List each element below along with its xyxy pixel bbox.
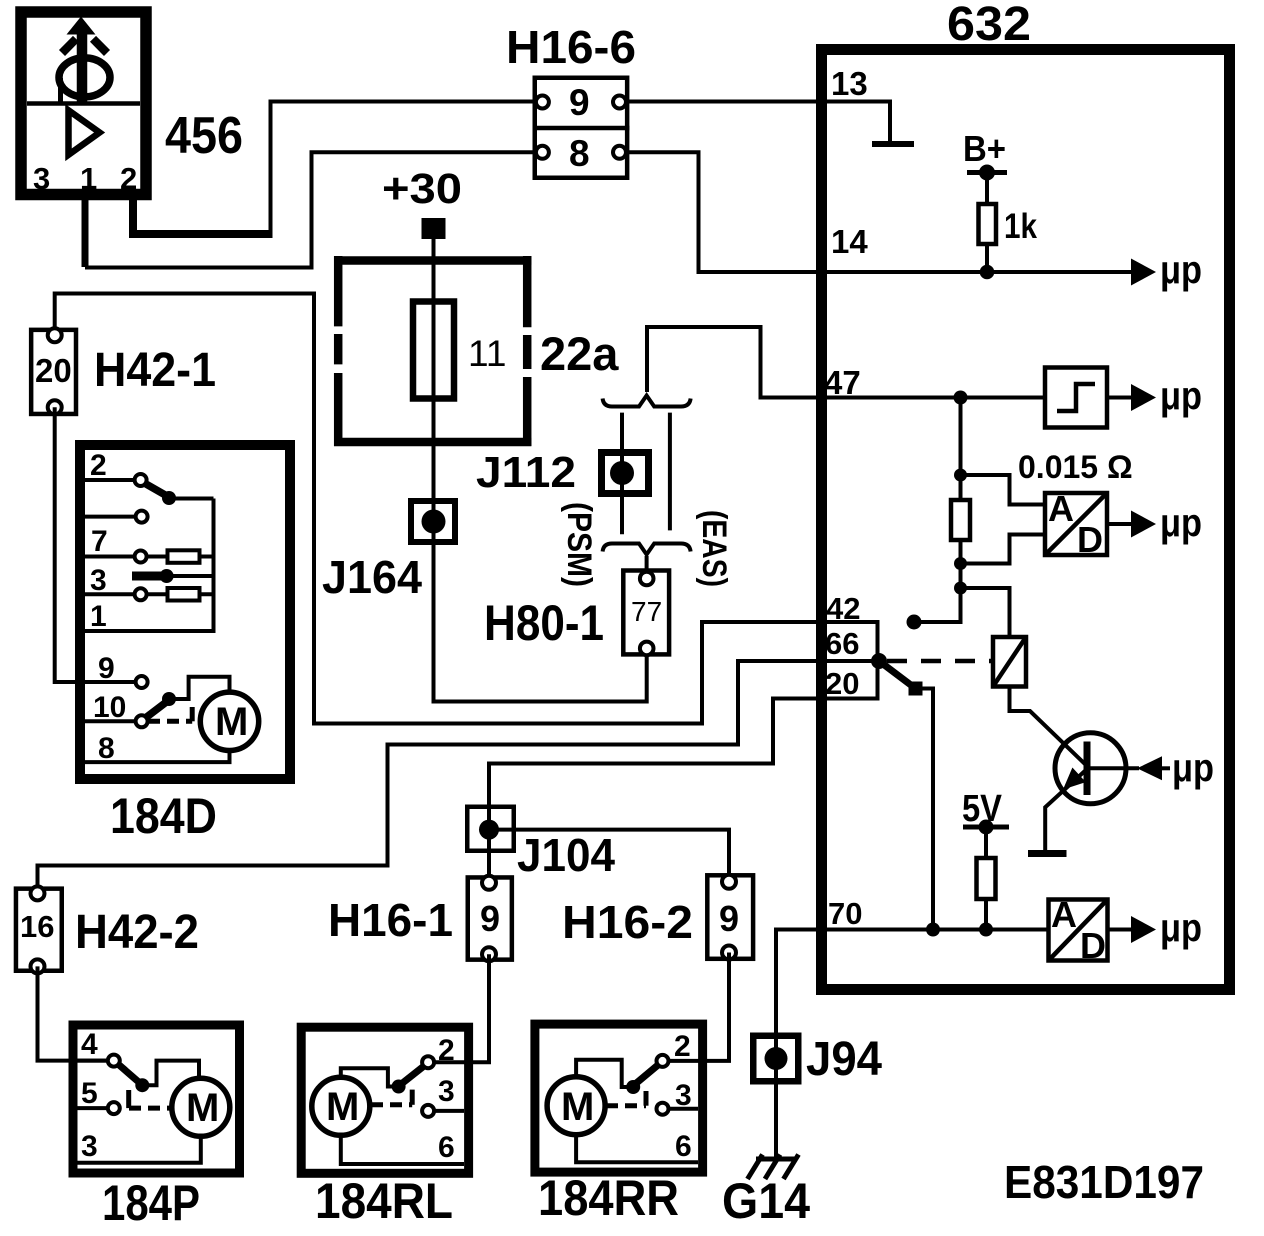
svg-text:μp: μp: [1160, 906, 1202, 950]
svg-text:2: 2: [120, 161, 137, 196]
svg-text:184P: 184P: [102, 1175, 200, 1231]
wire H42-2 to 184P pin4: [38, 966, 114, 1060]
184RL pin circles: [422, 1056, 434, 1117]
184D pin10: [85, 691, 142, 724]
456 arrow-eye symbol: [59, 17, 110, 104]
bottom brace: [603, 544, 691, 555]
184D dashed link: [148, 707, 192, 721]
wire 456 pin2 to H16-6 pin9: [133, 197, 270, 234]
wire 47 from brace to 632 pin47: [647, 327, 821, 398]
connector H16-1: [468, 876, 512, 961]
A/D converter 1: [1045, 488, 1107, 560]
box 184RL rear left mirror: [301, 1027, 468, 1173]
component 456 box (mirror switch): [21, 12, 146, 195]
184RL pin6 wire: [341, 1131, 464, 1164]
svg-text:D: D: [1080, 925, 1106, 966]
184RR motor M: [547, 1077, 605, 1135]
wire row70 internal: [776, 928, 1049, 932]
svg-text:20: 20: [825, 666, 859, 701]
184D pin7 with resistor: [85, 525, 214, 563]
svg-text:M: M: [186, 1086, 219, 1130]
resistor 0.015 ohm: [951, 449, 1133, 540]
wire pin70 to J94 to ground: [776, 930, 821, 1158]
svg-text:8: 8: [569, 133, 590, 174]
wire J104 to H16-2: [489, 830, 729, 882]
184RL switch arm: [341, 1066, 424, 1094]
resistor 5V pullup: [977, 858, 996, 930]
wire H42-1 to pin42 to contact box to J104 to H16-1: [55, 294, 878, 883]
svg-text:3: 3: [438, 1075, 455, 1108]
relay switch arm: [879, 661, 923, 696]
H16-6 pin numbers: [569, 82, 590, 174]
svg-text:H16-6: H16-6: [506, 21, 636, 73]
svg-text:184RL: 184RL: [315, 1173, 453, 1229]
dashed mechanical link to coil: [887, 659, 993, 664]
svg-text:9: 9: [719, 898, 739, 939]
svg-text:13: 13: [831, 65, 868, 102]
svg-text:H42-2: H42-2: [75, 906, 199, 959]
fuse 11: [413, 301, 506, 399]
184RL motor M: [312, 1077, 370, 1135]
relay switch pivot pin66: [871, 653, 887, 669]
svg-text:(PSM): (PSM): [560, 502, 598, 587]
svg-text:J164: J164: [322, 551, 422, 603]
box 184P passenger mirror: [73, 1025, 240, 1173]
svg-text:14: 14: [831, 223, 868, 260]
184P pin circles: [108, 1055, 120, 1115]
arrow to microprocessor A/D1: [1107, 501, 1202, 545]
184D nc contact: [85, 515, 142, 519]
svg-text:E831D197: E831D197: [1004, 1156, 1204, 1208]
svg-text:10: 10: [93, 691, 126, 724]
svg-text:A: A: [1051, 894, 1077, 935]
top brace: [603, 396, 691, 407]
junction row14: [980, 265, 995, 280]
svg-text:2: 2: [90, 449, 107, 482]
wire pin47 internal: [821, 396, 1045, 400]
wire arm to row70: [916, 689, 934, 930]
connector H80-1: [623, 571, 669, 656]
splice J104: [467, 807, 514, 851]
arrow to microprocessor row47: [1107, 374, 1202, 418]
184D pin1 with resistor: [85, 588, 214, 633]
svg-text:632: 632: [947, 0, 1031, 51]
svg-text:H42-1: H42-1: [94, 344, 216, 397]
svg-text:D: D: [1077, 519, 1103, 560]
svg-text:M: M: [561, 1085, 594, 1129]
svg-text:μp: μp: [1172, 746, 1214, 790]
svg-text:3: 3: [33, 161, 50, 196]
svg-text:0.015 Ω: 0.015 Ω: [1018, 449, 1133, 485]
svg-text:2: 2: [674, 1030, 691, 1063]
wire H16-6 pin8 to 632 pin14 and to microprocessor: [620, 152, 1134, 272]
184RR dashed link: [606, 1091, 646, 1106]
connector H42-2: [16, 886, 62, 973]
tap wires to A/D converter 1: [961, 475, 1046, 564]
box 184RR rear right mirror: [535, 1024, 703, 1172]
svg-text:7: 7: [91, 525, 108, 558]
svg-text:8: 8: [98, 732, 115, 765]
184P pin5: [77, 1077, 114, 1110]
184RR pin circles: [657, 1055, 669, 1115]
junction dots shunt: [954, 469, 967, 595]
svg-text:1: 1: [80, 161, 97, 196]
svg-text:184RR: 184RR: [538, 1170, 679, 1226]
connector circles H16-6: [536, 96, 626, 159]
fusebox 22a dashed border: [334, 256, 531, 446]
184D internal bus: [85, 499, 214, 632]
184D switch arm pin10: [146, 677, 230, 718]
184RR switch arm: [576, 1060, 658, 1094]
svg-text:6: 6: [438, 1131, 455, 1164]
connector H16-6: [533, 78, 630, 178]
svg-text:μp: μp: [1160, 374, 1202, 418]
svg-text:5: 5: [81, 1077, 98, 1110]
arrow from microprocessor to transistor: [1087, 746, 1214, 790]
184D pin2 line: [85, 449, 141, 482]
upper contact dot and wire: [907, 615, 961, 630]
shunt chain vertical: [914, 398, 961, 623]
184P pin4: [77, 1028, 114, 1061]
svg-text:B+: B+: [963, 128, 1006, 169]
node B+: [963, 128, 1007, 204]
splice J94: [753, 1036, 798, 1082]
transistor emitter with arrow to ground: [1028, 768, 1087, 854]
svg-text:184D: 184D: [110, 788, 217, 844]
svg-text:6: 6: [675, 1130, 692, 1163]
svg-text:3: 3: [90, 564, 107, 597]
184D motor M: [200, 692, 258, 750]
resistor 1k: [979, 204, 1038, 272]
184RL pin3: [428, 1075, 464, 1111]
svg-text:M: M: [215, 700, 248, 744]
svg-text:H80-1: H80-1: [484, 595, 604, 651]
wire 456 pin1 to H16-6 pin8: [82, 197, 89, 267]
box 632 (control unit): [822, 50, 1230, 990]
184D pin3 wiper: [90, 564, 214, 597]
svg-text:16: 16: [20, 909, 54, 944]
svg-text:1: 1: [90, 600, 107, 633]
184RL dashed link: [371, 1090, 412, 1105]
svg-text:22a: 22a: [540, 327, 619, 380]
456 triangle symbol: [69, 110, 100, 155]
svg-text:μp: μp: [1160, 248, 1202, 292]
svg-text:A: A: [1048, 488, 1074, 529]
relay coil: [993, 637, 1026, 687]
wire H16-2 to 184RR pin2: [663, 953, 730, 1061]
svg-text:J94: J94: [806, 1033, 882, 1086]
box 184D driver mirror: [80, 445, 290, 779]
184P pin3 wire: [77, 1130, 201, 1163]
184P switch arm: [118, 1061, 199, 1093]
A/D converter 2: [1049, 894, 1108, 966]
184RR pin6 wire: [576, 1130, 698, 1163]
svg-text:456: 456: [165, 107, 243, 165]
svg-text:66: 66: [825, 626, 859, 661]
svg-text:3: 3: [81, 1130, 98, 1163]
svg-text:J112: J112: [476, 448, 576, 497]
svg-text:70: 70: [828, 896, 862, 931]
svg-text:47: 47: [824, 364, 861, 401]
svg-text:9: 9: [480, 898, 500, 939]
transistor: [1055, 733, 1126, 804]
wire +30 through fuse down to junction J164 and H80-1: [434, 239, 647, 702]
svg-text:11: 11: [468, 333, 506, 374]
svg-text:77: 77: [631, 596, 662, 627]
184D switch arm pin2: [146, 484, 214, 505]
svg-text:J104: J104: [517, 829, 615, 881]
wire option PSM through J112: [620, 413, 624, 535]
svg-text:9: 9: [98, 652, 115, 685]
schmitt trigger box: [1045, 368, 1107, 428]
456 pin labels 3 1 2: [33, 161, 137, 196]
svg-text:μp: μp: [1160, 501, 1202, 545]
svg-text:4: 4: [81, 1028, 98, 1061]
svg-text:2: 2: [438, 1034, 455, 1067]
184RR pin3: [663, 1079, 699, 1112]
junction pin47: [954, 391, 968, 405]
wire coil to transistor base bar: [1010, 687, 1088, 767]
junction dots row70: [926, 923, 993, 937]
184D pin8 wire: [85, 732, 230, 765]
svg-text:H16-1: H16-1: [328, 894, 453, 946]
svg-text:M: M: [326, 1085, 359, 1129]
pin labels 42 66 20: [825, 591, 860, 701]
wire pin66 to H42-2: [38, 661, 880, 893]
ground G14: [748, 1155, 799, 1180]
connector H42-1: [31, 328, 76, 414]
arrow to microprocessor row14: [1131, 248, 1202, 292]
connector H16-2: [707, 875, 753, 960]
wire H16-6 pin9 to 632 pin13 and internal ground: [620, 102, 915, 145]
184D pin circles: [135, 474, 148, 727]
node 5V: [962, 788, 1009, 858]
svg-text:(EAS): (EAS): [695, 510, 733, 587]
arrow to microprocessor row70: [1108, 906, 1203, 950]
svg-text:+30: +30: [382, 165, 462, 213]
svg-text:20: 20: [35, 352, 72, 389]
wire option EAS: [668, 413, 672, 531]
+30 supply terminal: [382, 165, 462, 239]
wire brace to H80-1: [645, 556, 649, 579]
svg-text:G14: G14: [722, 1173, 810, 1229]
wire to relay coil: [961, 588, 1010, 637]
svg-text:1k: 1k: [1004, 207, 1037, 246]
svg-text:9: 9: [569, 82, 590, 123]
splice J164: [411, 501, 455, 542]
wire H16-1 to 184RL pin2: [428, 954, 489, 1062]
184P dashed link: [129, 1090, 172, 1108]
svg-text:H16-2: H16-2: [562, 896, 693, 948]
184P motor M: [172, 1078, 230, 1136]
wire H42-1 to 184D pin9: [55, 407, 142, 682]
splice J112: [602, 453, 649, 494]
